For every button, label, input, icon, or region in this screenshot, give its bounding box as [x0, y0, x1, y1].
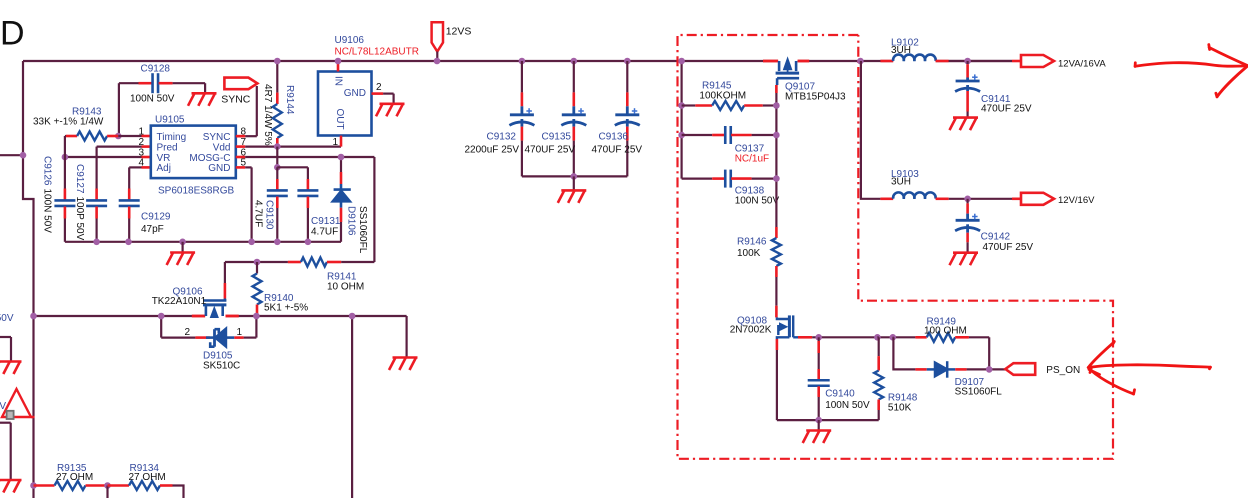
wire pin8 stub — [236, 135, 245, 138]
connector 12VS flag — [432, 22, 443, 51]
wire pin5 GND down — [236, 166, 245, 169]
svg-text:GND: GND — [344, 88, 366, 99]
wire gate net left column — [680, 61, 682, 179]
node R9144 Vdd — [274, 143, 281, 150]
svg-text:470UF 25V: 470UF 25V — [983, 242, 1034, 253]
svg-text:4R7 1/4W 5%: 4R7 1/4W 5% — [262, 84, 273, 146]
node U9106 bus — [335, 58, 342, 65]
capacitor C9137 NC — [682, 134, 713, 136]
connector PS_ON flag — [1005, 363, 1035, 375]
svg-text:27 OHM: 27 OHM — [56, 472, 93, 483]
node VR-C9126-R9143 — [62, 154, 69, 161]
svg-text:33K +-1% 1/4W: 33K +-1% 1/4W — [33, 117, 104, 128]
ground rail — [182, 242, 184, 253]
capacitor C9130 — [276, 167, 278, 179]
svg-text:SS1060FL: SS1060FL — [955, 386, 1003, 397]
svg-text:U9106: U9106 — [335, 35, 365, 46]
svg-text:12VA/16VA: 12VA/16VA — [1058, 59, 1106, 70]
svg-text:2200uF 25V: 2200uF 25V — [465, 145, 520, 156]
svg-text:SS1060FL: SS1060FL — [357, 206, 368, 254]
svg-text:1: 1 — [236, 327, 242, 338]
wire standby drive bus — [34, 315, 206, 317]
diode D9105 SK510C — [160, 316, 162, 338]
node left column bus — [678, 58, 685, 65]
wire branch down to 12V row — [861, 61, 881, 199]
annotation arrow PS_ON — [1088, 342, 1210, 395]
svg-text:MOSG-C: MOSG-C — [189, 153, 230, 164]
svg-text:2N7002K: 2N7002K — [730, 325, 772, 336]
node branch L9103 — [857, 58, 864, 65]
wire main 12VS bus — [23, 60, 778, 62]
node trunk bus — [30, 313, 37, 320]
node R9144 caps — [274, 164, 281, 171]
node stub junction — [20, 152, 27, 159]
diode D9106 SS1060FL — [340, 157, 342, 172]
svg-text:C9128: C9128 — [141, 64, 171, 75]
wire left edge stub — [0, 154, 23, 156]
diode D9107 SS1060FL — [892, 336, 895, 338]
wire pin4 Adj to C9129 — [129, 166, 141, 168]
svg-text:50V: 50V — [0, 313, 14, 324]
node C9142 — [964, 196, 971, 203]
svg-text:D: D — [0, 15, 25, 53]
node R9140 top — [254, 259, 261, 266]
svg-text:510K: 510K — [888, 402, 912, 413]
svg-text:2: 2 — [184, 327, 190, 338]
svg-text:27 OHM: 27 OHM — [129, 472, 166, 483]
node R9143-pin1-C9128 — [115, 133, 122, 140]
svg-text:C9132: C9132 — [487, 132, 517, 143]
node left column R9145 — [678, 102, 685, 109]
resistor R9143 — [65, 135, 66, 137]
capacitor C9140 — [818, 337, 820, 341]
transistor Q9107 MTB15P04J3 — [763, 60, 778, 63]
svg-text:V: V — [0, 401, 6, 412]
svg-text:U9105: U9105 — [155, 115, 185, 126]
transistor Q9106 TK22A10N1 — [192, 315, 205, 318]
resistor R9146 — [775, 227, 778, 238]
op-amp U9105 SP6018ES8RGB box — [151, 126, 236, 179]
resistor R9149 — [915, 336, 926, 339]
svg-text:100K: 100K — [737, 248, 761, 259]
svg-text:1: 1 — [332, 137, 338, 148]
svg-text:C9130: C9130 — [264, 200, 275, 230]
resistor R9135 — [34, 484, 55, 487]
capacitor C9142 — [966, 199, 968, 204]
resistor R9140 — [256, 262, 258, 274]
svg-text:1: 1 — [138, 127, 144, 138]
wire pin3 VR to C9126 node — [65, 156, 142, 158]
node D9105 left — [158, 313, 165, 320]
svg-text:D9106: D9106 — [346, 206, 357, 236]
svg-text:SK510C: SK510C — [203, 361, 240, 372]
node C9140 top — [815, 334, 822, 341]
capacitor C9127 — [95, 189, 98, 201]
node left column C9137 — [678, 132, 685, 139]
node PS_ON junction — [986, 366, 993, 373]
svg-text:5K1 +-5%: 5K1 +-5% — [264, 303, 308, 314]
node D9107 branch — [890, 334, 897, 341]
capacitor C9138 — [682, 178, 713, 180]
svg-text:470UF 25V: 470UF 25V — [592, 145, 643, 156]
svg-text:12VS: 12VS — [446, 26, 472, 38]
inductor L9102 — [880, 60, 893, 63]
svg-text:12V/16V: 12V/16V — [1058, 195, 1095, 206]
ground C9141 — [950, 118, 979, 131]
svg-text:100N 50V: 100N 50V — [825, 400, 870, 411]
svg-text:C9142: C9142 — [981, 232, 1011, 243]
wire bulk cap rail — [522, 175, 627, 177]
svg-text:NC/1uF: NC/1uF — [735, 154, 769, 165]
wire Q9108 source down — [776, 339, 779, 350]
svg-text:Timing: Timing — [157, 132, 187, 143]
svg-text:47pF: 47pF — [141, 224, 164, 235]
resistor R9148 — [877, 336, 878, 338]
connector 12VA/16VA flag — [1021, 55, 1054, 67]
annotation arrow top right — [1135, 45, 1248, 97]
svg-text:OUT: OUT — [334, 109, 345, 130]
svg-text:MTB15P04J3: MTB15P04J3 — [785, 92, 846, 103]
node right column R9145 — [773, 102, 780, 109]
svg-text:100 OHM: 100 OHM — [924, 325, 967, 336]
svg-text:4.7UF: 4.7UF — [253, 200, 264, 227]
svg-text:NC/L78L12ABUTR: NC/L78L12ABUTR — [335, 47, 419, 58]
node D9105 right — [253, 313, 260, 320]
svg-text:3: 3 — [138, 147, 144, 158]
wire to 12VA flag — [1012, 60, 1022, 63]
node gnd rail C9140 — [815, 417, 822, 424]
svg-text:100N 50V: 100N 50V — [42, 189, 53, 234]
svg-text:Pred: Pred — [157, 142, 178, 153]
ground for C9128 — [188, 93, 217, 106]
svg-text:2: 2 — [138, 137, 144, 148]
wire pin7 Vdd line — [236, 145, 245, 148]
wire U9106 IN pin — [337, 61, 340, 72]
svg-text:SYNC: SYNC — [221, 94, 251, 106]
node right column C9137 — [773, 132, 780, 139]
wire analog rail — [65, 241, 341, 243]
warning triangle fragment — [2, 389, 31, 417]
svg-text:C9135: C9135 — [542, 132, 572, 143]
resistor R9144 — [276, 61, 278, 93]
inductor L9103 — [880, 198, 893, 201]
svg-text:R9146: R9146 — [737, 237, 767, 248]
wire SYNC to pin8 — [256, 86, 258, 136]
resistor R9145 — [682, 104, 696, 106]
svg-text:VR: VR — [157, 153, 171, 164]
svg-text:3UH: 3UH — [891, 45, 911, 56]
capacitor C9129 — [128, 189, 131, 201]
capacitor C9136 — [624, 58, 631, 65]
svg-text:SP6018ES8RGB: SP6018ES8RGB — [158, 186, 234, 197]
svg-text:4.7UF: 4.7UF — [311, 227, 338, 238]
wire pin6 MOSG-C line — [236, 156, 245, 159]
capacitor C9126 — [64, 189, 67, 201]
node R9148 top — [874, 334, 881, 341]
svg-text:C9127: C9127 — [74, 164, 85, 194]
connector 12V/16V flag — [1021, 193, 1054, 205]
capacitor C9131 — [277, 166, 308, 168]
node R9134 left — [104, 482, 111, 489]
wire MOSG-C down to R9141 — [373, 157, 375, 262]
svg-text:100KOHM: 100KOHM — [699, 91, 746, 102]
wire left trunk below — [32, 486, 34, 498]
wire Q9108 gate stub — [798, 336, 812, 339]
node R9135 left — [30, 482, 37, 489]
node D9106 MOSG-C — [338, 154, 345, 161]
svg-text:C9126: C9126 — [42, 156, 53, 186]
svg-text:100P 50V: 100P 50V — [74, 197, 85, 241]
standby dashed outline box — [678, 35, 1114, 459]
svg-text:Vdd: Vdd — [213, 142, 231, 153]
ground left fragment lower — [0, 422, 11, 424]
ground drive bus — [389, 358, 418, 371]
node right column C9138 — [773, 175, 780, 182]
node C9141 — [964, 58, 971, 65]
svg-text:Adj: Adj — [157, 163, 171, 174]
svg-text:100N 50V: 100N 50V — [735, 196, 780, 207]
svg-text:R9144: R9144 — [284, 85, 295, 115]
svg-text:IN: IN — [333, 76, 344, 86]
wire U9106 GND pin 2 — [372, 92, 384, 95]
svg-text:4: 4 — [138, 158, 144, 169]
capacitor C9141 — [966, 61, 968, 64]
ground C9142 — [950, 253, 979, 266]
svg-text:C9140: C9140 — [825, 389, 855, 400]
ground left fragment upper — [0, 336, 11, 338]
svg-text:3UH: 3UH — [891, 177, 911, 188]
svg-text:GND: GND — [208, 163, 230, 174]
ground bulk caps — [573, 176, 575, 190]
wire gate net right column — [775, 85, 777, 227]
wire standby gnd rail — [777, 419, 879, 421]
ground standby — [818, 420, 820, 430]
ground U9106 — [376, 104, 405, 117]
connector SYNC flag — [224, 78, 257, 90]
transistor Q9108 2N7002K — [775, 306, 778, 318]
capacitor C9135 — [571, 58, 578, 65]
capacitor C9128 — [118, 83, 120, 135]
grey pad fragment — [7, 411, 14, 419]
resistor R9141 — [225, 261, 288, 263]
svg-text:100N 50V: 100N 50V — [130, 94, 175, 105]
svg-text:PS_ON: PS_ON — [1046, 365, 1080, 376]
svg-text:SYNC: SYNC — [203, 132, 231, 143]
svg-text:C9129: C9129 — [141, 212, 171, 223]
wire U9106 OUT pin 1 — [340, 136, 343, 147]
svg-text:470UF 25V: 470UF 25V — [981, 104, 1032, 115]
svg-text:2: 2 — [376, 82, 382, 93]
resistor R9134 — [108, 484, 130, 487]
svg-text:C9131: C9131 — [311, 216, 341, 227]
wire bus right to ground — [406, 316, 408, 358]
wire left trunk upper — [23, 61, 34, 486]
svg-text:TK22A10N1: TK22A10N1 — [152, 296, 207, 307]
svg-text:10 OHM: 10 OHM — [327, 282, 364, 293]
wire right trunk x352 — [351, 316, 353, 498]
wire pin2 Pred to C9127 — [97, 146, 142, 148]
node right trunk — [349, 313, 356, 320]
wire to 12V flag — [1012, 198, 1022, 201]
capacitor C9132 — [519, 58, 526, 65]
svg-text:C9136: C9136 — [599, 132, 629, 143]
wire Q9106 drain from R9141 node — [224, 283, 227, 299]
node R9144 bus — [274, 58, 281, 65]
svg-text:470UF 25V: 470UF 25V — [525, 145, 576, 156]
node 12VS — [434, 58, 441, 65]
